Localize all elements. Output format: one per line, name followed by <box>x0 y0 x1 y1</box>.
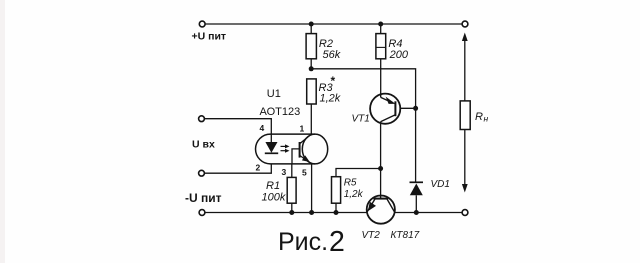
wire R2 top <box>310 24 312 34</box>
wire VT1 collector to VT2 base <box>380 124 382 196</box>
svg-text:2: 2 <box>256 163 261 173</box>
resistor R3 <box>307 79 317 104</box>
terminal U вх upper <box>199 116 205 122</box>
svg-text:2: 2 <box>329 226 345 258</box>
opto phototransistor base bar <box>299 142 301 158</box>
svg-text:1,2k: 1,2k <box>344 189 364 200</box>
svg-text:R5: R5 <box>344 178 357 189</box>
wire opto pin3 to R1 <box>291 164 293 178</box>
svg-text:-U пит: -U пит <box>185 191 222 205</box>
junction rail VD1 <box>414 210 419 215</box>
input wire lower <box>204 153 271 173</box>
svg-text:н: н <box>484 114 489 124</box>
svg-text:5: 5 <box>302 168 307 178</box>
light arrow lower <box>281 150 287 152</box>
terminal U вх lower <box>199 170 205 176</box>
optocoupler U1 body <box>256 134 315 164</box>
wire R4 top <box>380 24 382 34</box>
svg-text:4: 4 <box>260 123 265 133</box>
wire R2 bottom <box>310 59 312 69</box>
light arrow upper <box>281 145 287 147</box>
transistor VT2 <box>367 196 395 224</box>
svg-text:VD1: VD1 <box>431 179 450 190</box>
opto collector diagonal <box>300 134 311 143</box>
svg-text:U1: U1 <box>267 88 281 100</box>
wire R5 top to VT2 base node <box>336 169 381 177</box>
load branch arrow up <box>462 33 468 42</box>
opto LED cathode bar <box>265 152 278 154</box>
bottom rail wire right <box>395 212 463 214</box>
junction rail R4 <box>378 22 383 27</box>
resistor R4 <box>376 34 386 59</box>
wire R5 bottom <box>335 203 337 212</box>
opto LED anode wire <box>270 134 272 142</box>
resistor R5 <box>332 177 341 204</box>
svg-text:56k: 56k <box>323 49 341 61</box>
opto LED triangle <box>265 142 277 153</box>
diode VD1 <box>410 181 424 183</box>
transistor VT1 <box>370 94 400 124</box>
svg-text:200: 200 <box>389 49 409 61</box>
svg-text:Рис.: Рис. <box>278 228 328 256</box>
terminal +U left <box>199 21 205 27</box>
svg-text:3: 3 <box>282 167 287 177</box>
svg-text:R: R <box>475 111 483 123</box>
resistor R1 <box>287 177 296 203</box>
svg-text:КТ817: КТ817 <box>391 230 420 241</box>
junction rail R5 <box>334 210 339 215</box>
terminal -U right <box>462 210 468 216</box>
svg-text:R1: R1 <box>266 180 280 192</box>
wire node A to VT1 base <box>311 69 415 183</box>
svg-text:U вх: U вх <box>192 139 215 151</box>
wire R3 bottom to opto pin1 <box>310 104 312 134</box>
svg-text:VT2: VT2 <box>362 230 381 241</box>
node A junction <box>309 66 314 71</box>
opto emitter diagonal <box>300 156 312 164</box>
junction rail R2 <box>309 22 314 27</box>
opto base lead pin3 <box>292 149 300 164</box>
svg-text:1,2k: 1,2k <box>320 93 341 105</box>
svg-text:+U пит: +U пит <box>192 31 227 43</box>
top rail wire <box>205 23 462 25</box>
svg-text:VT1: VT1 <box>352 114 370 125</box>
svg-text:*: * <box>331 74 336 88</box>
svg-text:100k: 100k <box>262 192 286 204</box>
terminal -U left <box>199 210 205 216</box>
junction VT1 base <box>413 106 418 111</box>
svg-text:1: 1 <box>300 124 305 134</box>
svg-text:АОТ123: АОТ123 <box>260 106 301 118</box>
junction rail R1 <box>289 210 294 215</box>
terminal +U right <box>462 21 468 27</box>
resistor R2 <box>306 34 316 59</box>
junction rail pin5 <box>309 210 314 215</box>
bottom rail wire left <box>205 212 367 214</box>
wire VD1 bottom <box>415 195 417 212</box>
input wire upper <box>204 119 271 143</box>
wire R4 to VT1 emitter <box>380 59 382 94</box>
junction VT2 base node <box>378 166 383 171</box>
wire R1 bottom <box>291 203 293 212</box>
resistor Rн <box>460 101 470 130</box>
load branch arrow down <box>464 130 466 187</box>
wire VT1 base lead <box>395 107 415 109</box>
wire opto pin5 to rail <box>311 164 313 213</box>
